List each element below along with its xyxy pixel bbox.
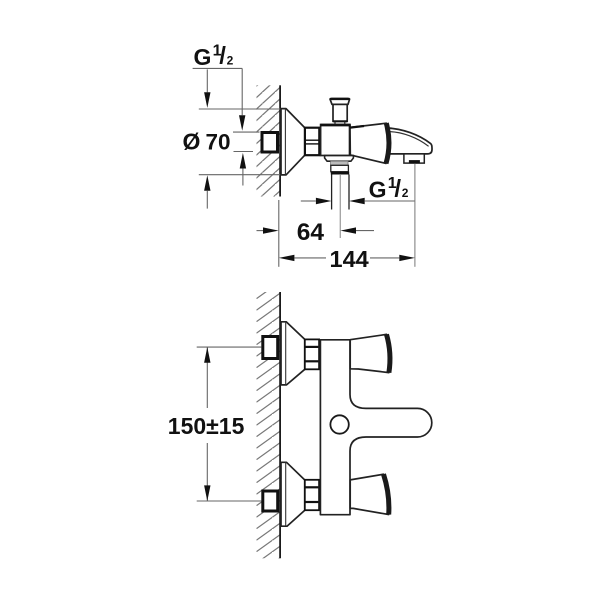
svg-text:G: G xyxy=(194,44,212,70)
svg-text:2: 2 xyxy=(402,186,409,200)
svg-text:/: / xyxy=(219,43,226,70)
svg-text:Ø: Ø xyxy=(183,129,201,155)
svg-text:G: G xyxy=(369,176,387,202)
svg-text:2: 2 xyxy=(227,53,234,67)
svg-text:150±15: 150±15 xyxy=(168,413,245,439)
svg-text:144: 144 xyxy=(330,246,369,272)
svg-text:64: 64 xyxy=(297,219,325,246)
svg-text:/: / xyxy=(394,175,401,202)
svg-text:70: 70 xyxy=(206,129,231,154)
